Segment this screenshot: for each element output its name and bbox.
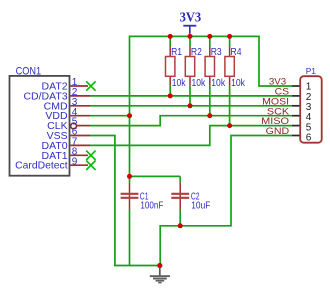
pin 5 CLK bubble xyxy=(71,123,77,129)
pin 5 CLK stub xyxy=(77,125,91,127)
junction C2 bottom xyxy=(178,223,183,228)
svg-text:10k: 10k xyxy=(172,78,187,89)
svg-text:10k: 10k xyxy=(192,78,207,89)
svg-text:GND: GND xyxy=(266,126,290,136)
svg-text:MISO: MISO xyxy=(261,116,289,126)
connector CON1 box xyxy=(10,76,70,176)
pin 7 DAT0 stub xyxy=(70,144,90,146)
resistor R2 xyxy=(185,36,206,105)
wire CLK to SCK row (P1 pin4) xyxy=(90,116,292,126)
svg-text:P1: P1 xyxy=(306,66,317,76)
junction VDD/3V3 xyxy=(127,113,132,118)
wire VDD to 3V3 vertical xyxy=(90,115,130,117)
pin 1 DAT2 stub xyxy=(70,85,88,87)
svg-text:10k: 10k xyxy=(211,78,226,89)
svg-text:MOSI: MOSI xyxy=(262,96,289,106)
junction R3/SCK xyxy=(207,113,212,118)
svg-text:9: 9 xyxy=(72,156,78,167)
wire 3V3 rail xyxy=(130,36,292,176)
svg-text:10uF: 10uF xyxy=(191,201,210,212)
connector P1 stubs xyxy=(292,86,300,136)
svg-text:CS: CS xyxy=(275,87,290,97)
connector P1 box xyxy=(300,76,322,143)
svg-text:6: 6 xyxy=(306,133,312,144)
pin 9 CardDetect stub xyxy=(70,164,88,166)
wire VSS down to ground row xyxy=(90,136,160,266)
svg-text:R1: R1 xyxy=(171,47,182,58)
power 3V3 symbol xyxy=(183,26,196,37)
resistor R1 xyxy=(166,36,187,96)
svg-text:3V3: 3V3 xyxy=(269,77,286,87)
wire CS row (CD/DAT3 to P1 pin2) xyxy=(90,95,292,97)
wire capacitor top row xyxy=(130,175,181,177)
capacitor C1 xyxy=(121,176,164,265)
ground symbol xyxy=(150,267,170,283)
svg-text:100nF: 100nF xyxy=(140,201,163,212)
junction top rail R4 xyxy=(227,34,232,39)
pin 6 VSS stub xyxy=(70,135,90,137)
resistor R4 xyxy=(225,36,246,125)
svg-text:10k: 10k xyxy=(231,78,246,89)
junction C1 top xyxy=(127,174,132,179)
pin 3 CMD stub xyxy=(70,105,90,107)
junction top rail R3 xyxy=(207,34,212,39)
pin 2 CD/DAT3 stub xyxy=(70,95,90,97)
svg-text:3V3: 3V3 xyxy=(180,11,202,26)
junction R1/CS xyxy=(168,93,173,98)
svg-text:R2: R2 xyxy=(191,47,202,58)
junction R2/MOSI xyxy=(188,103,193,108)
junction R4/MISO xyxy=(227,123,232,128)
wire GND from P1 pin6 down and left xyxy=(160,136,292,266)
svg-text:SCK: SCK xyxy=(267,106,289,116)
no-connect X pin 1 xyxy=(86,81,95,90)
svg-text:CON1: CON1 xyxy=(16,65,41,77)
svg-text:R4: R4 xyxy=(231,47,242,58)
junction ground node xyxy=(157,263,162,268)
wire DAT0 to MISO row (P1 pin5) xyxy=(90,126,292,146)
pin 8 DAT1 stub xyxy=(70,154,88,156)
junction top rail R2/power xyxy=(188,34,193,39)
junction top rail R1 xyxy=(168,34,173,39)
no-connect X pin 9 xyxy=(86,161,95,170)
pin 4 VDD stub xyxy=(70,115,90,117)
capacitor C2 xyxy=(171,176,210,225)
no-connect X pin 8 xyxy=(86,151,95,160)
resistor R3 xyxy=(205,36,226,115)
svg-text:R3: R3 xyxy=(211,47,222,58)
power 3V3 label xyxy=(180,11,202,26)
svg-text:CardDetect: CardDetect xyxy=(15,160,68,172)
wire MOSI row (CMD to P1 pin3) xyxy=(90,105,292,107)
